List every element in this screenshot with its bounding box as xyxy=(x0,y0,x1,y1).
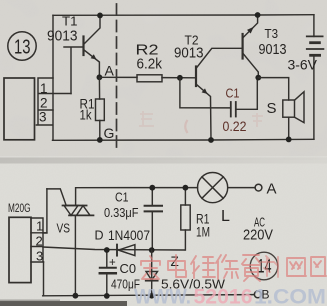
wire A to R1 to G xyxy=(98,77,100,140)
T3 lower junction xyxy=(255,75,261,81)
wire gate feed xyxy=(47,189,66,206)
connector block M20G xyxy=(9,217,31,282)
circled figure number 14 xyxy=(250,252,278,280)
svg-text:G: G xyxy=(104,125,115,141)
C0 junctions xyxy=(104,247,110,253)
char jia xyxy=(141,256,160,279)
zener bottom junction xyxy=(149,293,155,299)
svg-text:9013: 9013 xyxy=(47,29,78,45)
svg-text:220V: 220V xyxy=(243,228,273,244)
svg-text:13: 13 xyxy=(14,37,31,59)
svg-text:S: S xyxy=(267,100,277,117)
T2 base junction xyxy=(177,75,183,81)
wire base lead T1 xyxy=(64,47,84,94)
svg-text:0.22: 0.22 xyxy=(223,119,247,134)
svg-text:T1: T1 xyxy=(62,14,78,29)
svg-text:1: 1 xyxy=(40,81,48,96)
wire T3 to speaker xyxy=(258,78,288,100)
triac MT1 junction xyxy=(73,293,79,299)
svg-text:1.COM: 1.COM xyxy=(254,285,326,306)
wire pin2 / diode line xyxy=(43,247,185,250)
wire bottom rail xyxy=(53,139,314,140)
connector pin cells xyxy=(36,78,71,125)
resistor R2 xyxy=(137,75,162,82)
resistor R1 1M xyxy=(181,205,190,230)
char wang xyxy=(287,258,306,276)
zener Z xyxy=(151,250,153,296)
svg-text:0.33μF: 0.33μF xyxy=(104,205,139,220)
capacitor C1 (0.33uF) xyxy=(151,188,153,250)
char dian xyxy=(168,255,186,277)
terminal A xyxy=(255,184,262,191)
svg-text:C0: C0 xyxy=(120,262,137,276)
speaker S xyxy=(283,100,295,117)
svg-text:A: A xyxy=(267,181,277,198)
T3 collector top junction xyxy=(255,12,261,18)
wire pin1 to gate xyxy=(43,189,47,233)
svg-text:52016: 52016 xyxy=(194,285,253,306)
svg-text:D: D xyxy=(95,229,104,243)
svg-text:WWW.: WWW. xyxy=(134,285,191,306)
char zi xyxy=(242,255,260,281)
connector block left xyxy=(4,78,35,140)
transistor T1 xyxy=(82,37,84,56)
wire bottom rail xyxy=(43,295,255,296)
resistor R1 top xyxy=(96,99,105,121)
dark smear bottom-left edge xyxy=(0,301,127,306)
svg-text:1: 1 xyxy=(36,219,43,234)
wire left vertical xyxy=(52,15,54,140)
svg-text:3-6V: 3-6V xyxy=(288,57,318,73)
svg-text:A: A xyxy=(105,63,115,79)
C1 bottom junction xyxy=(149,247,155,253)
connector pin cells bottom xyxy=(31,218,47,262)
R1 top junction xyxy=(183,185,189,191)
wire top rail bottom circuit xyxy=(76,188,198,206)
svg-text:2: 2 xyxy=(40,96,48,111)
partial char right edge xyxy=(311,257,326,276)
node top junction 1 xyxy=(97,13,103,19)
capacitor C1 (0.22) xyxy=(230,102,232,117)
svg-text:9013: 9013 xyxy=(174,46,204,62)
svg-text:L: L xyxy=(221,208,230,225)
char wei xyxy=(191,256,215,278)
transistor T2 xyxy=(195,67,197,87)
triac VS xyxy=(63,205,87,207)
svg-text:C1: C1 xyxy=(226,86,240,101)
wire T2 base node down to C1 xyxy=(180,78,231,108)
svg-text:M20G: M20G xyxy=(8,203,31,215)
lamp L xyxy=(198,173,228,203)
svg-text:+: + xyxy=(109,257,116,269)
svg-text:3: 3 xyxy=(36,249,43,264)
wire node A to R2 xyxy=(99,76,137,78)
battery 3-6V xyxy=(313,15,315,37)
T2 emitter junction xyxy=(208,137,214,143)
char liao (under circle 14) xyxy=(262,256,278,277)
svg-text:1N4007: 1N4007 xyxy=(108,228,150,243)
svg-text:T3: T3 xyxy=(265,26,279,41)
svg-text:1k: 1k xyxy=(80,108,92,123)
terminal B xyxy=(254,291,261,298)
wire top rail xyxy=(53,14,314,17)
speaker junction xyxy=(286,137,292,143)
svg-text:3: 3 xyxy=(39,110,47,125)
svg-text:1M: 1M xyxy=(196,225,210,240)
red watermark row xyxy=(141,255,326,281)
svg-text:C1: C1 xyxy=(115,191,129,205)
blue web watermark xyxy=(134,285,326,306)
capacitor C0 470uF xyxy=(106,250,108,296)
svg-text:VS: VS xyxy=(57,222,71,236)
C1 top junction xyxy=(149,185,155,191)
svg-text:9013: 9013 xyxy=(259,42,287,58)
circled figure number 13 xyxy=(8,32,36,60)
dashed separator line xyxy=(116,4,118,153)
wire R2 to T2 base xyxy=(162,77,196,79)
svg-text:6.2k: 6.2k xyxy=(137,57,163,73)
node G junction xyxy=(97,137,103,143)
wire pin3 to bottom rail xyxy=(43,262,45,296)
transistor T3 xyxy=(242,34,244,59)
diode D 1N4007 xyxy=(116,245,118,256)
char xiu xyxy=(216,255,238,279)
wire lamp to terminal A xyxy=(228,187,255,189)
faint middle watermark fragments xyxy=(139,111,263,133)
node A junction xyxy=(97,74,103,80)
svg-text:2: 2 xyxy=(36,234,43,249)
